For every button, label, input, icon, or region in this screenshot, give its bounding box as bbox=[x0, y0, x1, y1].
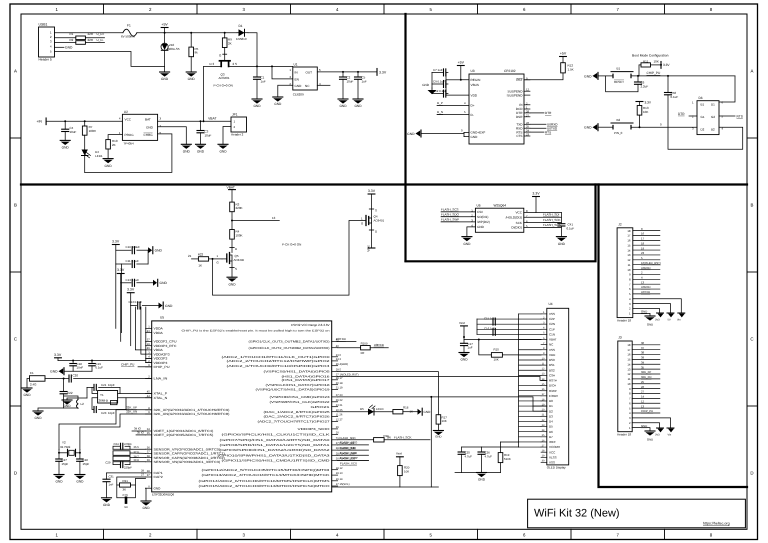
svg-text:https://heltec.org: https://heltec.org bbox=[703, 522, 730, 526]
ground U1 bbox=[273, 96, 283, 98]
wire R22 to gate node bbox=[209, 258, 222, 260]
wire cluster2 rail down bbox=[120, 283, 122, 342]
svg-text:18 12: 18 12 bbox=[336, 467, 343, 470]
svg-text:D7: D7 bbox=[549, 435, 553, 439]
svg-text:3V3: 3V3 bbox=[655, 434, 660, 437]
svg-text:D6: D6 bbox=[549, 430, 553, 434]
svg-text:D5: D5 bbox=[360, 407, 364, 411]
svg-text:GPIO21: GPIO21 bbox=[311, 405, 331, 409]
svg-text:220pF: 220pF bbox=[124, 466, 132, 470]
svg-text:27: 27 bbox=[147, 474, 150, 477]
power flag +5V bbox=[161, 27, 168, 29]
J3 bottom staircase wires bbox=[632, 418, 670, 428]
wire R9 to Q3 gate bbox=[224, 48, 226, 61]
svg-text:(GPIO11/SPICS0/HS1_CMD/U1RTS)S: (GPIO11/SPICS0/HS1_CMD/U1RTS)SD_CMD bbox=[222, 459, 330, 463]
svg-text:16: 16 bbox=[641, 232, 645, 236]
ground JP1 bbox=[218, 143, 228, 145]
U4 pin numbers and stubs bbox=[541, 311, 547, 463]
svg-text:IN: IN bbox=[295, 70, 298, 74]
svg-text:OUT: OUT bbox=[306, 70, 313, 74]
svg-text:R11: R11 bbox=[643, 59, 649, 63]
wire U0RXD net cp2102 bbox=[530, 123, 546, 125]
svg-text:J2: J2 bbox=[618, 222, 622, 226]
resistor R9 gate pullup bbox=[224, 33, 226, 38]
svg-text:LED4: LED4 bbox=[376, 407, 384, 411]
capacitor C16 1uF bbox=[492, 328, 494, 335]
wire C20 to LNA_IN bbox=[74, 378, 152, 380]
ground ESP32 bbox=[141, 500, 151, 502]
wire VDET_2 stub bbox=[136, 434, 146, 436]
ground flag LED bbox=[421, 408, 423, 415]
svg-text:U2: U2 bbox=[124, 110, 128, 114]
svg-text:GND: GND bbox=[641, 424, 647, 428]
wire C6 to B1 left bbox=[606, 76, 638, 92]
J3 pin numbers bbox=[627, 343, 631, 430]
svg-text:CHIP_PU is the ESP32's enable/: CHIP_PU is the ESP32's enable/reset pin.… bbox=[182, 330, 331, 333]
svg-text:GND: GND bbox=[477, 225, 485, 229]
wire C22 to GND bbox=[38, 394, 64, 411]
resistor R16 0R flash sck bbox=[338, 439, 374, 441]
svg-text:11 26: 11 26 bbox=[336, 414, 343, 417]
wire USB D+ bbox=[55, 37, 76, 39]
svg-text:FLASH_SWP: FLASH_SWP bbox=[441, 217, 459, 221]
svg-text:34: 34 bbox=[641, 360, 645, 364]
svg-text:100R: 100R bbox=[89, 129, 97, 133]
diode D4 LED1 bbox=[84, 135, 86, 149]
svg-text:GND: GND bbox=[339, 104, 347, 108]
svg-text:(VSPICLK/HS1_DATA7)GPIO18: (VSPICLK/HS1_DATA7)GPIO18 bbox=[266, 383, 331, 387]
svg-text:37: 37 bbox=[147, 339, 150, 342]
svg-text:AO3401: AO3401 bbox=[219, 76, 230, 80]
wire flash scs label bbox=[338, 459, 369, 461]
svg-text:GND: GND bbox=[23, 393, 31, 397]
wire U1 EN bbox=[272, 66, 293, 79]
svg-text:16 14: 16 14 bbox=[336, 478, 343, 481]
svg-text:CHRG: CHRG bbox=[144, 133, 154, 137]
power flag +5V R12 bbox=[560, 56, 567, 58]
svg-text:20: 20 bbox=[336, 432, 339, 435]
svg-text:(VSPIHD/HS1_CMD)GPIO23: (VSPIHD/HS1_CMD)GPIO23 bbox=[270, 395, 331, 399]
svg-text:GND: GND bbox=[142, 506, 150, 510]
section divider horizontal bbox=[21, 183, 747, 185]
svg-text:B2: B2 bbox=[711, 127, 715, 131]
power flag 3.3V Q4 source bbox=[368, 193, 375, 195]
svg-text:R18: R18 bbox=[403, 406, 409, 410]
wire R10 to GND bbox=[107, 149, 109, 159]
svg-text:S: S bbox=[235, 267, 237, 271]
ground R5 bbox=[186, 71, 196, 73]
capacitor C7 1uF bbox=[432, 71, 444, 73]
svg-text:3.3V: 3.3V bbox=[379, 70, 387, 74]
svg-text:(DAC_2/ADC2_9/RTC7)GPIO26: (DAC_2/ADC2_9/RTC7)GPIO26 bbox=[264, 415, 331, 419]
svg-text:11: 11 bbox=[628, 377, 631, 381]
wire R20 bottom rail bbox=[399, 476, 401, 487]
svg-text:GND: GND bbox=[165, 304, 173, 308]
svg-text:GND: GND bbox=[274, 102, 282, 106]
svg-text:23 0: 23 0 bbox=[336, 354, 342, 357]
svg-text:GND: GND bbox=[478, 478, 486, 482]
wire ADC sense net 13 bbox=[232, 220, 279, 222]
svg-text:26: 26 bbox=[641, 385, 645, 389]
svg-text:(HS1_DATA5)GPIO17: (HS1_DATA5)GPIO17 bbox=[282, 378, 331, 382]
svg-text:10uF: 10uF bbox=[70, 130, 77, 134]
svg-text:22R: 22R bbox=[88, 32, 94, 36]
wire C58 bottom loop bbox=[668, 95, 743, 150]
capacitor C23 10pF bbox=[93, 407, 95, 413]
ground flag analog bbox=[63, 368, 65, 375]
wire analog 3.3V row bbox=[57, 358, 59, 361]
svg-text:36: 36 bbox=[147, 446, 150, 449]
wire antenna gnd bbox=[27, 379, 30, 389]
wire D1 cathode down to input node bbox=[248, 33, 257, 67]
svg-text:GND: GND bbox=[103, 503, 111, 507]
svg-text:GND: GND bbox=[253, 104, 261, 108]
svg-text:CHIP_PU: CHIP_PU bbox=[121, 362, 134, 366]
svg-text:/WP(DI2): /WP(DI2) bbox=[477, 220, 490, 224]
svg-text:!SUSPEND: !SUSPEND bbox=[507, 93, 524, 97]
wire LED1 to loop bbox=[84, 156, 86, 173]
ground C28 bbox=[75, 474, 85, 476]
resistor R15 10K bbox=[491, 353, 502, 358]
ground C3 bbox=[196, 143, 206, 145]
ground Q5 bbox=[227, 276, 237, 278]
wire JP1 pin2 to GND bbox=[223, 127, 231, 145]
svg-text:G: G bbox=[361, 221, 363, 225]
svg-text:C14 0.1uF: C14 0.1uF bbox=[129, 300, 143, 304]
svg-text:U5: U5 bbox=[160, 316, 164, 320]
svg-text:10K: 10K bbox=[442, 419, 447, 423]
wire bottom rail net bbox=[332, 486, 438, 488]
svg-text:PROG: PROG bbox=[125, 133, 135, 137]
wire CHIP_PU node bbox=[631, 75, 735, 77]
wire OLED_RST long net bbox=[338, 377, 547, 381]
svg-text:(ADC2_7/TOUCH7/RTC17)GPIO27: (ADC2_7/TOUCH7/RTC17)GPIO27 bbox=[258, 420, 331, 424]
wire CHIP_PU to ESP32 bbox=[138, 366, 152, 368]
power flag 3.3V cluster3 bbox=[127, 292, 134, 294]
svg-text:R15: R15 bbox=[494, 348, 500, 352]
svg-text:C24: C24 bbox=[114, 442, 120, 446]
svg-text:CS#: CS# bbox=[477, 210, 483, 214]
svg-text:C2P: C2P bbox=[549, 317, 555, 321]
svg-text:VDDA: VDDA bbox=[154, 331, 164, 335]
power flag Vext R20 bbox=[397, 456, 404, 458]
svg-text:E/RD#: E/RD# bbox=[549, 394, 558, 398]
svg-text:(GPIO8/SPID/HS1_DATA1/U2CTS)SD: (GPIO8/SPID/HS1_DATA1/U2CTS)SD_DATA1 bbox=[220, 443, 331, 447]
wire VCC rail bbox=[481, 446, 483, 448]
svg-text:D-: D- bbox=[471, 113, 474, 117]
ESP32 right pin names bbox=[199, 340, 331, 489]
svg-text:B: B bbox=[751, 203, 754, 208]
svg-text:5V: 5V bbox=[668, 319, 671, 322]
wire U_D- net bbox=[85, 42, 104, 44]
svg-text:38: 38 bbox=[147, 455, 150, 458]
svg-text:AO3401: AO3401 bbox=[374, 218, 385, 222]
svg-text:C29: C29 bbox=[105, 461, 111, 465]
svg-text:G1: G1 bbox=[701, 115, 705, 119]
capacitor C27 15pF bbox=[56, 458, 63, 460]
wire C28 gnd bbox=[79, 461, 81, 474]
wire U4 bus vertical bbox=[518, 314, 520, 447]
power flag J2 3V3 bbox=[657, 312, 664, 314]
svg-text:C1N: C1N bbox=[549, 332, 555, 336]
wire VDET_1 stub bbox=[132, 430, 146, 432]
title block box bbox=[528, 499, 746, 528]
wire vdd rail4 down bbox=[135, 307, 145, 350]
op-amp U1 regulator box bbox=[293, 67, 318, 90]
connector USB1 bbox=[39, 27, 55, 57]
svg-text:10nF: 10nF bbox=[77, 366, 84, 370]
IC U5 ESP32 box bbox=[152, 321, 332, 492]
svg-text:27: 27 bbox=[641, 390, 645, 394]
svg-text:3.3V: 3.3V bbox=[54, 353, 62, 357]
node Vext flag bbox=[368, 247, 375, 249]
svg-text:16: 16 bbox=[627, 353, 631, 357]
svg-text:33 21: 33 21 bbox=[336, 404, 343, 407]
svg-text:34: 34 bbox=[147, 428, 150, 431]
svg-text:Vext: Vext bbox=[367, 245, 371, 251]
svg-text:TP4054: TP4054 bbox=[123, 142, 134, 146]
wire U0RXD net bbox=[370, 347, 388, 349]
svg-text:39 8: 39 8 bbox=[134, 459, 140, 462]
diode D5 LED bbox=[338, 411, 368, 413]
wire C41 to GND bbox=[560, 226, 562, 237]
svg-text:A: A bbox=[14, 69, 17, 74]
svg-text:Vext: Vext bbox=[459, 321, 465, 325]
svg-text:D3: D3 bbox=[549, 414, 553, 418]
svg-text:JP1: JP1 bbox=[232, 113, 238, 117]
wire Y2 left to C27 bbox=[58, 450, 60, 460]
svg-text:CHIP_PU: CHIP_PU bbox=[647, 71, 662, 75]
wire C1 to GND bbox=[256, 79, 258, 99]
svg-text:BS0: BS0 bbox=[549, 358, 555, 362]
resistor R13 10K bbox=[639, 102, 641, 106]
svg-text:R22: R22 bbox=[198, 253, 204, 257]
svg-text:D1: D1 bbox=[711, 103, 715, 107]
capacitor C58 0.1uF bbox=[667, 76, 669, 93]
svg-text:36 22: 36 22 bbox=[336, 399, 343, 402]
svg-text:39: 39 bbox=[147, 459, 150, 462]
svg-text:(GPIO15/ADC2_3/TOUCH3/RTC13/MT: (GPIO15/ADC2_3/TOUCH3/RTC13/MTDO/HSPICS0… bbox=[199, 484, 331, 488]
resistor R22 1K bbox=[198, 257, 208, 261]
svg-text:25: 25 bbox=[641, 380, 645, 384]
wire analog gnd tie bbox=[64, 370, 92, 372]
section divider vertical bbox=[404, 14, 406, 261]
svg-text:C15 1uF: C15 1uF bbox=[484, 316, 495, 320]
svg-text:18: 18 bbox=[641, 241, 645, 245]
wire FLASH_SDI net bbox=[524, 216, 562, 218]
svg-text:(ADC2_0/TOUCH0/RTC10/HSPIHD)GP: (ADC2_0/TOUCH0/RTC10/HSPIHD)GPIO4 bbox=[227, 364, 331, 368]
svg-text:(GPIO13/ADC2_4/TOUCH4/RTC14/MT: (GPIO13/ADC2_4/TOUCH4/RTC14/MTCK/HSPID)M… bbox=[202, 473, 330, 477]
svg-text:32K_XN: 32K_XN bbox=[641, 375, 651, 379]
svg-text:FLASH_SCS: FLASH_SCS bbox=[441, 207, 459, 211]
svg-text:REGIN: REGIN bbox=[471, 78, 481, 82]
svg-text:19: 19 bbox=[641, 246, 645, 250]
svg-text:R1: R1 bbox=[70, 32, 74, 36]
svg-text:19 13: 19 13 bbox=[336, 472, 343, 475]
wire C27 gnd bbox=[58, 461, 60, 474]
svg-text:GND: GND bbox=[50, 370, 58, 374]
svg-text:D5: D5 bbox=[549, 425, 553, 429]
wire Z10 to GND bbox=[164, 50, 166, 72]
ground C31 bbox=[102, 497, 112, 499]
ground C17 bbox=[459, 352, 469, 354]
svg-text:CS#: CS# bbox=[549, 373, 555, 377]
svg-text:0.1uF: 0.1uF bbox=[567, 226, 575, 230]
connector J2 Header 18 bbox=[617, 228, 633, 318]
svg-text:RST: RST bbox=[516, 78, 522, 82]
svg-text:11: 11 bbox=[628, 263, 631, 267]
svg-text:GND: GND bbox=[161, 77, 169, 81]
wire USB D- bbox=[55, 42, 76, 44]
power flag 3.3V R13 bbox=[636, 101, 643, 103]
svg-text:220K: 220K bbox=[236, 206, 243, 210]
wire +5V to REGIN bbox=[461, 66, 469, 80]
svg-text:15: 15 bbox=[627, 358, 631, 362]
capacitor C24 470pF bbox=[113, 448, 146, 450]
svg-text:A: A bbox=[751, 69, 754, 74]
svg-text:(VSPIQ/U0CTS/HS1_DATA5)GPIO19: (VSPIQ/U0CTS/HS1_DATA5)GPIO19 bbox=[256, 388, 331, 392]
svg-text:13: 13 bbox=[272, 216, 276, 220]
svg-text:GND: GND bbox=[424, 410, 432, 414]
svg-text:LED1: LED1 bbox=[95, 154, 103, 158]
wire cluster3 bbox=[130, 293, 132, 306]
svg-text:FLASH_SHD: FLASH_SHD bbox=[340, 451, 357, 455]
svg-text:USB1: USB1 bbox=[39, 23, 48, 27]
svg-text:35: 35 bbox=[641, 365, 645, 369]
svg-text:VCOMH: VCOMH bbox=[549, 445, 560, 449]
capacitor C28 15pF bbox=[77, 458, 84, 460]
svg-text:C1P: C1P bbox=[549, 327, 555, 331]
svg-text:D0: D0 bbox=[549, 399, 553, 403]
wire flash sdi label bbox=[338, 449, 369, 451]
wire VBAT to R3 bbox=[231, 190, 233, 203]
svg-text:SCK: SCK bbox=[516, 221, 523, 225]
capacitor C3 10uF bbox=[200, 121, 202, 130]
ground J2 bbox=[645, 315, 655, 317]
svg-text:VLSS: VLSS bbox=[549, 455, 557, 459]
wire flash swp label bbox=[338, 459, 369, 461]
svg-text:U0TXD: U0TXD bbox=[641, 290, 650, 294]
svg-text:14: 14 bbox=[627, 362, 631, 366]
svg-text:26MHz: 26MHz bbox=[99, 398, 109, 402]
svg-text:(GPIO6/SPICLK/HS1_CLK/U1CTS)SD: (GPIO6/SPICLK/HS1_CLK/U1CTS)SD_CLK bbox=[222, 433, 330, 437]
wire U1 NC stub bbox=[317, 84, 330, 86]
wire DTR net bbox=[530, 112, 544, 114]
svg-text:C13 0.1uF: C13 0.1uF bbox=[126, 278, 140, 282]
ground R17 bbox=[433, 430, 443, 432]
svg-text:E1: E1 bbox=[30, 371, 34, 375]
wire R5 to GND bbox=[190, 57, 192, 72]
svg-text:0.1uF: 0.1uF bbox=[671, 95, 679, 99]
svg-text:D 3: D 3 bbox=[210, 62, 215, 66]
svg-text:13: 13 bbox=[641, 280, 645, 284]
wire bypass rail vertical bbox=[445, 72, 447, 95]
wire U0TXD net bbox=[338, 341, 356, 343]
svg-text:SO(DI1): SO(DI1) bbox=[477, 215, 488, 219]
svg-text:D: D bbox=[14, 470, 17, 475]
svg-text:U0RXD: U0RXD bbox=[374, 343, 385, 347]
svg-text:GND: GND bbox=[647, 438, 653, 442]
svg-text:C20: C20 bbox=[73, 374, 79, 378]
wire Q4 drain to Vext bbox=[371, 223, 373, 248]
svg-text:C21: C21 bbox=[101, 383, 107, 387]
connector U4 OLED box bbox=[547, 308, 569, 465]
svg-text:L2: L2 bbox=[81, 402, 85, 406]
svg-text:U3: U3 bbox=[471, 69, 475, 73]
wire R15 to VDD pin bbox=[502, 354, 541, 356]
svg-text:D_N: D_N bbox=[437, 110, 443, 114]
svg-text:ESP32 VCC Range 2.8-3.6V: ESP32 VCC Range 2.8-3.6V bbox=[291, 323, 329, 327]
svg-text:(VSPIWP/HS1_CLK)GPIO22: (VSPIWP/HS1_CLK)GPIO22 bbox=[270, 400, 331, 404]
transistor Q4 AO3401 P-MOSFET Vext bbox=[366, 216, 369, 226]
resistor R2 22R bbox=[76, 41, 86, 45]
svg-text:4.7uF: 4.7uF bbox=[485, 454, 493, 458]
right headers section box bbox=[599, 185, 748, 488]
svg-text:0R: 0R bbox=[361, 351, 365, 355]
svg-text:FLASH_SCK: FLASH_SCK bbox=[543, 218, 561, 222]
svg-text:/HOLD(DI3): /HOLD(DI3) bbox=[506, 215, 522, 219]
wire divider node bbox=[231, 212, 233, 230]
svg-text:P-CH G=0 ON: P-CH G=0 ON bbox=[282, 243, 301, 247]
ground U6 bbox=[462, 236, 472, 238]
capacitor C6 2.2uF bbox=[637, 76, 639, 82]
ground C41 bbox=[556, 236, 566, 238]
transistor Q3 AO3401 P-MOSFET bbox=[220, 60, 231, 62]
svg-text:32K_XP: 32K_XP bbox=[641, 370, 651, 374]
svg-text:14: 14 bbox=[641, 395, 645, 399]
svg-text:2 S: 2 S bbox=[233, 62, 238, 66]
svg-text:D: D bbox=[750, 470, 753, 475]
svg-text:1K: 1K bbox=[198, 264, 202, 268]
svg-text:(DAC_1/ADC2_8/RTC6)GPIO25: (DAC_1/ADC2_8/RTC6)GPIO25 bbox=[264, 410, 331, 414]
svg-text:VDD3P3_SDIO: VDD3P3_SDIO bbox=[298, 427, 331, 431]
svg-text:GND: GND bbox=[641, 310, 647, 314]
resistor R21 3K bbox=[120, 483, 131, 487]
IC U2 TP4054 charger box bbox=[122, 114, 157, 140]
transistor Q5 AO3400 N-MOSFET bbox=[227, 253, 230, 264]
svg-text:GND: GND bbox=[146, 126, 154, 130]
wire VCC to 3.3V bbox=[524, 197, 536, 213]
wire sensor capn loop bbox=[113, 456, 130, 461]
svg-text:10uF: 10uF bbox=[347, 79, 354, 83]
power flag +5V CP2102 bbox=[457, 65, 464, 67]
IC U3 CP2102 box bbox=[469, 74, 524, 144]
svg-text:(GPIO3/CLK_OUT2_OUT2MB2_DATA0/: (GPIO3/CLK_OUT2_OUT2MB2_DATA0/U0RXD) bbox=[249, 346, 330, 350]
resistor R12 1.5K bbox=[562, 57, 564, 63]
capacitor C12 0.1uF bbox=[432, 93, 444, 95]
svg-text:43: 43 bbox=[147, 330, 150, 333]
svg-text:CHIP_PU: CHIP_PU bbox=[641, 409, 653, 413]
ground J3 bbox=[645, 430, 655, 432]
ground Z10 bbox=[160, 71, 170, 73]
svg-text:GND: GND bbox=[354, 104, 362, 108]
svg-text:G: G bbox=[217, 260, 219, 264]
svg-text:B1: B1 bbox=[617, 67, 621, 71]
svg-text:GND: GND bbox=[105, 164, 113, 168]
svg-text:(GPIO9/SPIHD/HS1_DATA2/U1RXD)S: (GPIO9/SPIHD/HS1_DATA2/U1RXD)SD_DATA2 bbox=[220, 448, 331, 452]
svg-text:2K: 2K bbox=[112, 143, 116, 147]
wire U1 GND pin bbox=[278, 85, 293, 97]
svg-text:39: 39 bbox=[641, 356, 645, 360]
svg-text:GND: GND bbox=[460, 358, 468, 362]
svg-text:GND: GND bbox=[463, 242, 471, 246]
capacitor C14 0.1uF bbox=[137, 302, 139, 309]
svg-text:1uF: 1uF bbox=[261, 79, 266, 83]
wire gate node to Q4 gate loop bbox=[213, 221, 367, 296]
resistor R1 22R bbox=[76, 36, 86, 40]
capacitor C25 4.7uF bbox=[461, 447, 463, 452]
resistor R7 100R bbox=[84, 121, 86, 126]
